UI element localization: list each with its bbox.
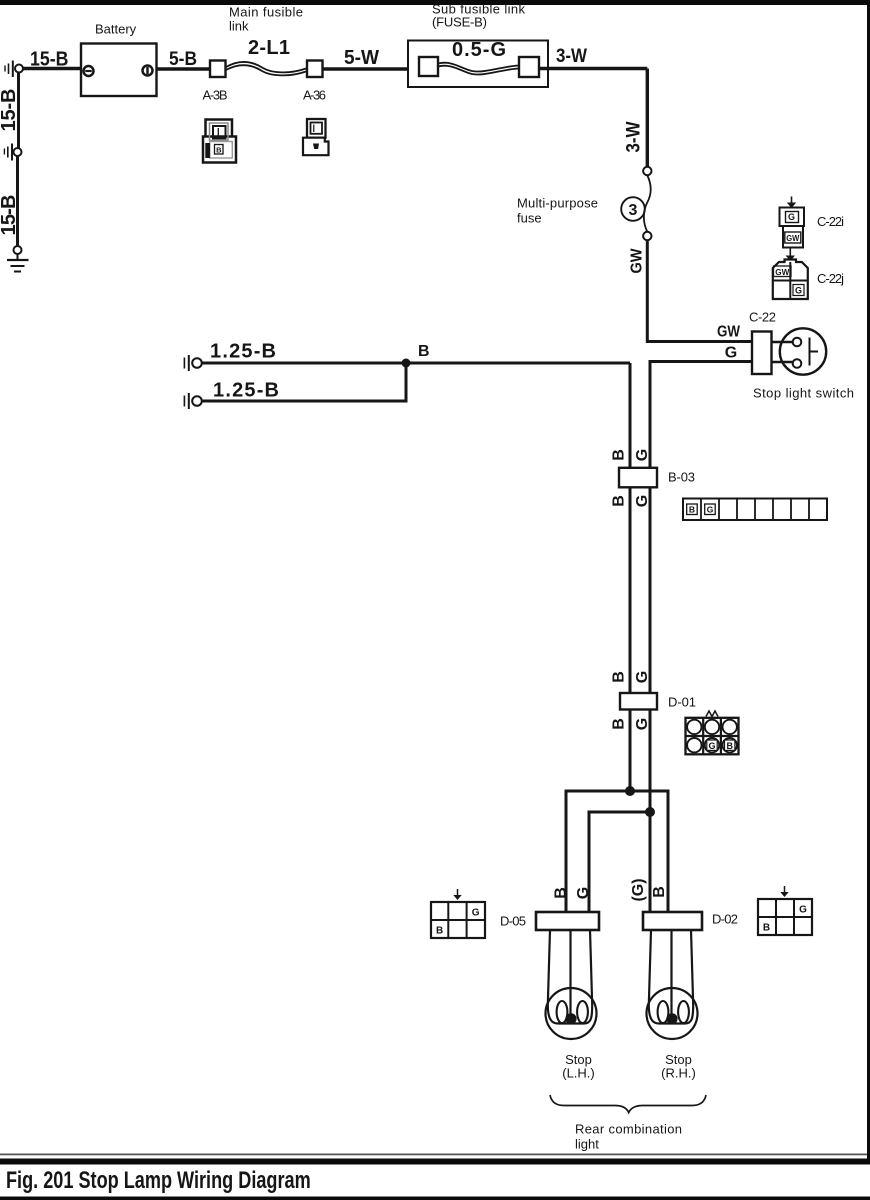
svg-text:G: G [795, 286, 802, 296]
svg-text:D-05: D-05 [500, 914, 526, 929]
svg-text:B: B [689, 504, 695, 514]
svg-text:B: B [436, 926, 443, 937]
svg-text:Stop light switch: Stop light switch [753, 386, 854, 401]
svg-text:B: B [610, 718, 627, 730]
svg-text:1.25-B: 1.25-B [210, 341, 276, 363]
svg-text:(FUSE-B): (FUSE-B) [432, 15, 487, 30]
svg-text:B: B [418, 343, 430, 360]
svg-text:B: B [651, 886, 668, 898]
svg-text:2-L1: 2-L1 [248, 37, 290, 59]
svg-text:GW: GW [717, 324, 741, 341]
svg-text:B-03: B-03 [668, 470, 695, 485]
svg-text:G: G [634, 671, 651, 683]
svg-text:C-22i: C-22i [817, 214, 844, 229]
svg-text:B: B [610, 495, 627, 507]
svg-text:G: G [725, 345, 737, 362]
svg-text:B: B [610, 449, 627, 461]
svg-text:B: B [216, 146, 222, 155]
svg-text:light: light [575, 1137, 599, 1152]
svg-text:G: G [634, 449, 651, 461]
svg-text:Fig. 201 Stop Lamp Wiring Diag: Fig. 201 Stop Lamp Wiring Diagram [6, 1167, 311, 1194]
svg-text:D-01: D-01 [668, 695, 696, 710]
svg-text:3: 3 [629, 202, 638, 219]
svg-text:GW: GW [629, 248, 646, 274]
svg-text:Battery: Battery [95, 22, 137, 37]
svg-text:G: G [472, 908, 480, 919]
svg-text:3-W: 3-W [624, 121, 645, 152]
svg-text:G: G [788, 212, 795, 222]
svg-text:G: G [634, 495, 651, 507]
svg-text:3-W: 3-W [556, 46, 587, 67]
svg-text:GW: GW [786, 233, 800, 243]
svg-text:15-B: 15-B [30, 49, 69, 71]
svg-text:D-02: D-02 [712, 912, 738, 927]
svg-text:G: G [707, 504, 714, 514]
svg-text:fuse: fuse [517, 211, 542, 226]
svg-text:B: B [552, 887, 569, 899]
svg-text:B: B [610, 671, 627, 683]
svg-text:0.5-G: 0.5-G [452, 39, 506, 61]
svg-text:A-3B: A-3B [203, 88, 228, 103]
svg-text:G: G [634, 718, 651, 730]
svg-text:B: B [726, 741, 733, 751]
svg-text:Multi-purpose: Multi-purpose [517, 196, 598, 211]
svg-text:G: G [799, 905, 807, 916]
svg-text:(G): (G) [630, 878, 647, 901]
svg-text:C-22j: C-22j [817, 271, 844, 286]
svg-text:5-W: 5-W [344, 47, 379, 69]
svg-text:(L.H.): (L.H.) [562, 1066, 595, 1081]
svg-text:1.25-B: 1.25-B [213, 380, 279, 402]
svg-text:(R.H.): (R.H.) [661, 1066, 696, 1081]
svg-text:15-B: 15-B [0, 195, 20, 236]
svg-text:5-B: 5-B [169, 49, 197, 70]
svg-text:B: B [763, 923, 770, 934]
svg-text:Rear combination: Rear combination [575, 1122, 682, 1137]
svg-text:G: G [708, 741, 715, 751]
svg-text:G: G [575, 887, 592, 899]
svg-text:link: link [229, 19, 249, 34]
svg-text:15-B: 15-B [0, 89, 20, 132]
svg-text:A-36: A-36 [303, 88, 326, 103]
svg-text:C-22: C-22 [749, 310, 776, 325]
svg-text:Main fusible: Main fusible [229, 5, 303, 20]
svg-text:GW: GW [775, 267, 790, 277]
